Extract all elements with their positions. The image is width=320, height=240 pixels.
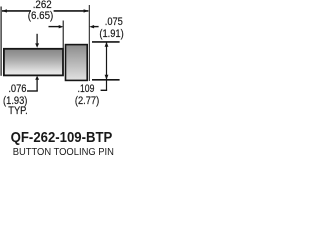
svg-text:QF-262-109-BTP: QF-262-109-BTP	[11, 128, 113, 145]
svg-text:(2.77): (2.77)	[75, 96, 99, 108]
svg-text:(6.65): (6.65)	[28, 11, 53, 22]
svg-text:.262: .262	[33, 0, 52, 11]
svg-text:BUTTON TOOLING PIN: BUTTON TOOLING PIN	[13, 146, 114, 158]
svg-text:.076: .076	[8, 83, 27, 95]
svg-text:(1.91): (1.91)	[99, 29, 123, 41]
svg-text:TYP.: TYP.	[8, 106, 28, 118]
svg-text:.075: .075	[105, 17, 124, 29]
svg-text:.109: .109	[78, 83, 95, 95]
